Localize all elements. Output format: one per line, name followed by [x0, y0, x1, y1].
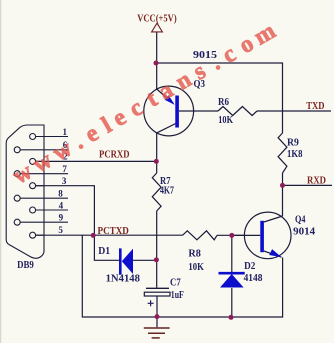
svg-text:PCTXD: PCTXD — [98, 226, 129, 237]
svg-text:1N4148: 1N4148 — [106, 273, 141, 285]
svg-text:9: 9 — [59, 213, 64, 223]
svg-text:4K7: 4K7 — [160, 185, 174, 196]
svg-text:R8: R8 — [188, 248, 201, 259]
svg-text:DB9: DB9 — [17, 260, 34, 271]
svg-text:10K: 10K — [188, 262, 204, 273]
svg-text:3: 3 — [62, 176, 67, 186]
svg-text:4: 4 — [59, 201, 64, 211]
svg-text:Q4: Q4 — [295, 214, 306, 225]
svg-text:VCC(+5V): VCC(+5V) — [137, 13, 177, 24]
svg-text:D1: D1 — [98, 246, 110, 257]
svg-text:1K8: 1K8 — [287, 149, 302, 160]
svg-text:4148: 4148 — [244, 272, 263, 284]
svg-text:R9: R9 — [287, 138, 299, 149]
svg-text:9014: 9014 — [293, 226, 316, 238]
svg-text:8: 8 — [58, 188, 63, 198]
svg-text:PCRXD: PCRXD — [99, 150, 130, 161]
svg-text:TXD: TXD — [306, 101, 324, 112]
svg-text:D2: D2 — [244, 261, 255, 272]
svg-text:RXD: RXD — [307, 175, 326, 186]
svg-text:10K: 10K — [218, 115, 233, 126]
svg-text:R6: R6 — [218, 97, 229, 108]
svg-text:1uF: 1uF — [171, 290, 184, 301]
svg-text:5: 5 — [58, 225, 63, 235]
svg-text:C7: C7 — [170, 278, 181, 289]
